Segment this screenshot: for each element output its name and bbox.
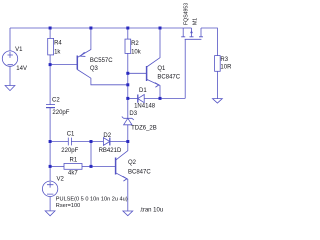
svg-text:FQS4953: FQS4953 xyxy=(184,3,190,25)
node dot C1 D2 xyxy=(90,140,93,143)
svg-text:TDZ6_2B: TDZ6_2B xyxy=(131,125,157,131)
wire V2 bottom xyxy=(49,197,51,211)
svg-text:RB421D: RB421D xyxy=(99,148,122,154)
wire mini rail xyxy=(90,142,92,167)
svg-text:1N4148: 1N4148 xyxy=(134,104,156,110)
svg-text:PULSE(0 5 0 10n 10n 2u 4u): PULSE(0 5 0 10n 10n 2u 4u) xyxy=(56,196,128,202)
svg-text:M1: M1 xyxy=(193,18,199,25)
resistor R4 xyxy=(48,38,54,55)
transistor Q3 BC557C xyxy=(76,56,78,70)
wire R3 bottom xyxy=(216,71,218,98)
ground (V1) xyxy=(5,86,15,91)
wire C2 to C1 row xyxy=(49,108,51,142)
svg-text:V2: V2 xyxy=(57,176,65,182)
wire D2 to node xyxy=(110,141,128,143)
svg-text:220pF: 220pF xyxy=(61,148,78,154)
wire top rail xyxy=(10,27,183,29)
node dot left R1 xyxy=(49,165,52,168)
node dot top Q1 xyxy=(159,27,162,30)
node dot rail D1 xyxy=(126,97,129,100)
ground (V2) xyxy=(45,211,55,216)
transistor Q1 BC847C xyxy=(146,66,148,81)
wire Q1 base xyxy=(128,72,147,74)
wire D1 row xyxy=(128,97,138,99)
node dot left C1 xyxy=(49,140,52,143)
node dot top Q3 xyxy=(89,27,92,30)
wire M1 gate lead xyxy=(184,39,186,98)
svg-text:R2: R2 xyxy=(131,41,139,47)
svg-text:4k7: 4k7 xyxy=(68,171,78,177)
wire Q3 base xyxy=(50,64,77,66)
svg-text:Q3: Q3 xyxy=(90,66,99,72)
voltage source V2 xyxy=(42,181,57,196)
svg-text:10k: 10k xyxy=(131,49,142,55)
diode D1 1N4148 xyxy=(137,95,139,103)
wire R1 right xyxy=(82,165,91,167)
svg-text:BC557C: BC557C xyxy=(90,58,113,64)
diode D2 RB421D xyxy=(103,138,109,146)
node dot top R4 xyxy=(49,27,52,30)
node dot R4 bottom xyxy=(49,63,52,66)
wire R4 top xyxy=(49,28,51,38)
node dot D2 D3 Q2 xyxy=(126,140,129,143)
wire R2 bottom rail xyxy=(127,53,129,118)
wire C1 row left xyxy=(50,141,68,143)
svg-text:Q2: Q2 xyxy=(128,160,137,166)
svg-text:V1: V1 xyxy=(15,47,23,53)
wire M1 drain to R3 xyxy=(201,28,217,56)
svg-text:14V: 14V xyxy=(16,66,27,72)
resistor R2 xyxy=(125,39,131,53)
wire left rail C1 to V2 xyxy=(49,142,51,182)
svg-text:220pF: 220pF xyxy=(52,110,69,116)
node dot rail Q1 base xyxy=(126,72,129,75)
svg-text:R4: R4 xyxy=(54,41,62,47)
node dot R1 Q2 xyxy=(90,165,93,168)
wire D3 to node xyxy=(127,125,129,142)
svg-text:C2: C2 xyxy=(52,97,60,103)
wire R1 row left xyxy=(50,165,64,167)
svg-text:Rser=100: Rser=100 xyxy=(56,203,80,209)
resistor R3 xyxy=(215,56,221,72)
svg-text:D2: D2 xyxy=(103,133,111,139)
wire V1 top stub xyxy=(9,28,11,51)
node dot Q1 emitter xyxy=(159,97,162,100)
node dot rail Q3 collector xyxy=(126,83,129,86)
svg-text:D1: D1 xyxy=(139,88,147,94)
capacitor C2 xyxy=(46,104,55,106)
svg-text:.tran 10u: .tran 10u xyxy=(140,208,164,214)
svg-text:10R: 10R xyxy=(220,65,231,71)
wire R4 bottom to C2 xyxy=(49,55,51,105)
ground (R3) xyxy=(213,99,223,104)
voltage source V1 xyxy=(2,51,17,66)
wire D1 to Q1 emitter to gate xyxy=(144,97,185,99)
svg-text:R3: R3 xyxy=(220,57,228,63)
diode D3 TDZ6_2B (zener) xyxy=(124,118,132,125)
svg-text:BC847C: BC847C xyxy=(128,170,151,176)
ground (Q2) xyxy=(123,211,133,216)
wire V1 bottom stub xyxy=(9,66,11,85)
wire R2 top xyxy=(127,28,129,39)
svg-text:Q1: Q1 xyxy=(157,66,166,72)
wire C1 to D2 xyxy=(71,141,103,143)
resistor R1 xyxy=(64,164,82,170)
svg-text:D3: D3 xyxy=(129,111,137,117)
transistor Q2 BC847C xyxy=(115,158,117,175)
svg-text:R1: R1 xyxy=(70,157,78,163)
svg-text:1k: 1k xyxy=(54,50,61,56)
mosfet M1 FQS4953 xyxy=(181,28,185,37)
wire Q2 base xyxy=(91,165,116,167)
svg-text:BC847C: BC847C xyxy=(157,75,180,81)
node dot top R2 xyxy=(126,27,129,30)
capacitor C1 xyxy=(68,138,71,146)
svg-text:C1: C1 xyxy=(67,132,75,138)
